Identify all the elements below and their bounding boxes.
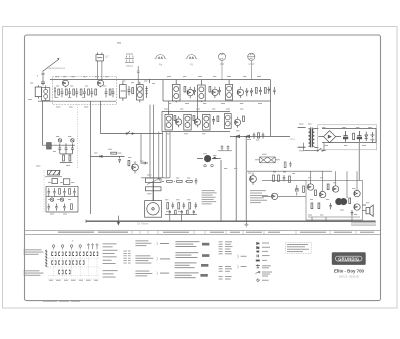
AF small parts row 1 — [162, 178, 197, 184]
socket Bu4 jack — [218, 53, 225, 60]
switch S1 — [127, 131, 135, 134]
bottom bus line — [86, 220, 376, 222]
symbol legend row 2 zener — [257, 246, 270, 248]
ruler boxed cell — [158, 231, 194, 235]
terminal E1 — [204, 164, 206, 166]
resistor R63 — [187, 180, 193, 182]
capacitor C50 — [48, 188, 51, 196]
switch contact row 2 — [51, 260, 84, 264]
resistor R12 — [209, 87, 211, 92]
wire cluster rail — [47, 145, 75, 163]
wire volume feed — [212, 158, 221, 160]
wire AGC drop — [140, 134, 142, 164]
wire speaker feed — [362, 205, 366, 211]
coil L3 box — [120, 85, 127, 98]
svg-text:a: a — [72, 240, 74, 243]
resistor R61 — [167, 180, 173, 182]
value labels IF row A — [122, 76, 262, 104]
switch matrix bottom text row — [49, 279, 98, 282]
transistor Q3 — [187, 89, 193, 95]
wire band drop — [100, 101, 102, 133]
bridge rectifier Gr1 — [318, 131, 341, 143]
resistor R62 — [177, 180, 183, 182]
capacitor C64 — [183, 202, 186, 208]
wire IF rail top — [163, 79, 271, 81]
wire IF2 drop b — [162, 132, 164, 178]
capacitor C5 — [75, 88, 78, 97]
tuner AGC cluster group — [47, 139, 75, 163]
resistor R52 — [71, 204, 73, 210]
capacitor C4 — [68, 88, 71, 97]
wire output verticals — [311, 171, 357, 198]
svg-text:220V~: 220V~ — [290, 139, 297, 141]
output stage group — [307, 184, 360, 217]
resistor R60 — [128, 160, 130, 165]
svg-text:GRUNDIG: GRUNDIG — [338, 257, 359, 262]
symbol legend row 4 cap — [257, 255, 270, 258]
svg-text:Ra: Ra — [159, 62, 163, 66]
crystal filter F1 — [96, 53, 103, 63]
wire output bottom rail — [308, 216, 360, 218]
ruler strip text left — [58, 232, 374, 233]
IF transformer Tr1 — [172, 84, 180, 101]
wire tuner drop A — [149, 105, 151, 178]
resistor R66 — [189, 203, 191, 209]
capacitor C12 — [193, 87, 196, 95]
capacitor C72 — [289, 162, 292, 168]
resistor R73 — [303, 186, 305, 192]
ground symbol G1 — [244, 221, 248, 227]
legend brace 5 label — [241, 265, 247, 268]
resistor R1 — [58, 89, 60, 95]
capacitor C57 — [55, 204, 58, 211]
ruler ticks — [132, 231, 356, 235]
resistor R8 — [109, 89, 111, 95]
capacitor C56 — [48, 204, 51, 211]
trimmer C2 — [54, 88, 56, 98]
switch matrix dashed verticals — [54, 248, 97, 277]
value labels output stage — [308, 177, 369, 215]
wire AF rail y171 — [247, 170, 332, 172]
coil L2 box FM input — [42, 85, 50, 100]
capacitor C18 — [273, 87, 276, 95]
switch wafer bar — [45, 250, 47, 268]
resistor R77 — [349, 198, 351, 204]
schematic border frame — [25, 35, 381, 301]
elko C71 — [295, 185, 299, 195]
IF transformer Tr3 — [226, 84, 233, 100]
wire row — [91, 155, 125, 157]
capacitor C52 — [63, 188, 66, 196]
wire filter drop 2 — [101, 63, 103, 80]
legend col4 text groups — [135, 240, 153, 276]
note text block 2 — [250, 190, 268, 203]
elko C45 — [47, 143, 52, 149]
wire IF link 1 — [168, 101, 170, 114]
transistor Q4 — [212, 89, 218, 95]
resistor R40 — [63, 155, 65, 161]
wire IF input riser — [149, 80, 151, 83]
legend col5 group 3 — [175, 262, 197, 268]
wire AF pins — [170, 215, 182, 222]
tag box 2 — [202, 254, 209, 257]
wire left drop — [43, 101, 56, 145]
transistor Q9 — [132, 164, 139, 171]
wire osc right drop — [77, 186, 79, 212]
transistor Q10 driver — [250, 173, 257, 185]
capacitor C30 elko — [343, 131, 347, 142]
wire osc mid rail — [46, 196, 78, 198]
value labels left section — [36, 136, 121, 214]
capacitor C14 — [218, 87, 221, 95]
wire DIN drop — [137, 66, 140, 85]
diode D4 — [244, 135, 250, 138]
diode D2 — [250, 88, 253, 96]
IF transformer Tr6 — [203, 114, 210, 130]
wire driver bottom rail — [262, 195, 306, 197]
legend col2 text rows — [103, 243, 118, 277]
resistor R10 — [184, 87, 186, 92]
resistor R68 — [187, 210, 189, 214]
resistor R79 — [318, 203, 320, 209]
wire IF left edge — [162, 80, 164, 101]
wire bus down right — [270, 80, 272, 137]
tuning gang link dashed — [77, 105, 79, 168]
wire drop x232 — [235, 136, 237, 221]
legend ruler line bottom — [25, 233, 381, 235]
legend col5 group 1 — [175, 241, 199, 247]
transistor Q7 — [194, 119, 200, 125]
elko C61 leads — [197, 158, 218, 160]
bus arrow marker — [118, 216, 120, 225]
tuning diode row group — [91, 152, 125, 163]
capacitor C1 — [41, 80, 45, 85]
transistor Q12 — [319, 191, 325, 197]
tag box 4 — [200, 274, 207, 277]
resistor R26 — [243, 116, 245, 121]
footer print note — [43, 300, 80, 303]
wire filter drop 1 — [97, 63, 99, 80]
AM mixer stage group — [120, 82, 148, 103]
wire osc top rail — [46, 185, 78, 187]
IF transformer Tr7 — [224, 114, 231, 129]
value labels IF row B — [164, 109, 259, 141]
svg-text:TB/TA: TB/TA — [126, 64, 133, 68]
trimmer C54 — [50, 198, 53, 201]
wire IF link 2 — [196, 101, 198, 119]
wire jack Bu5 drop — [250, 61, 252, 80]
oscillator coil L12 — [63, 179, 69, 185]
capacitor C70 — [283, 175, 286, 181]
capacitor C74 — [351, 210, 354, 216]
junction dot bus — [246, 220, 248, 222]
grid ref mark top — [117, 42, 121, 43]
resistor R3 — [73, 89, 75, 95]
transistor Q1 FM RF — [62, 80, 68, 88]
resistor R2 — [65, 89, 67, 95]
wire drop x242 — [245, 136, 247, 221]
terminal E2 — [211, 164, 213, 166]
wire PS top rail — [322, 127, 376, 129]
legend col5 group 4 — [175, 272, 199, 278]
legend brace 4 — [236, 255, 239, 259]
AM IF stage group — [224, 114, 244, 129]
wire IF2 rail bottom — [162, 131, 230, 133]
value labels tuner band — [28, 76, 108, 107]
IF transformer Tr2 — [198, 85, 206, 101]
FM tuner enclosure dashed — [53, 76, 117, 104]
wire IF2 drop d — [169, 132, 171, 178]
capacitor C31 elko — [357, 131, 361, 142]
capacitor C58 — [63, 204, 66, 211]
filter L1 box — [35, 85, 41, 98]
resistor R51 — [69, 189, 71, 195]
symbol legend row 3 elko — [256, 251, 268, 253]
capacitor C6 — [83, 88, 86, 97]
wire FM rail top — [50, 79, 116, 81]
capacitor C9 — [105, 88, 108, 97]
wire PS bottom rail — [322, 142, 376, 144]
resistor R71 — [278, 175, 280, 181]
power transformer Tr8 — [298, 127, 319, 147]
GRUNDIG logo box — [332, 252, 366, 265]
capacitor C68 — [169, 210, 171, 215]
trimmer C40 — [58, 139, 61, 142]
legend left note text — [24, 249, 44, 275]
svg-text:T: T — [37, 74, 39, 78]
resistor R15 — [255, 88, 257, 94]
capacitor C65 — [195, 202, 198, 208]
resistor R78 — [311, 203, 313, 209]
legend brace 3 label — [160, 273, 169, 274]
wire AF row1 — [162, 180, 186, 182]
tag box 1 — [202, 243, 209, 246]
capacitor C75 — [193, 210, 195, 215]
diode D3 ratio det — [234, 135, 240, 138]
trimmer C55 — [60, 198, 63, 201]
pot body circle — [147, 203, 159, 215]
resistor R6 — [95, 89, 97, 95]
socket Bu2 earphone — [155, 55, 167, 59]
resistor R24 — [217, 116, 219, 121]
transistor Q2 FM osc — [97, 80, 103, 88]
resistor R41 — [69, 155, 71, 161]
capacitor C44 — [71, 143, 74, 154]
legend brace 2 — [156, 257, 159, 260]
wire IF2 drop c — [165, 132, 167, 178]
socket Bu5 jack — [248, 53, 255, 60]
resistor R76 — [327, 184, 329, 190]
resistor R22 — [193, 116, 195, 121]
svg-text:GW 21 - 6100 02: GW 21 - 6100 02 — [339, 274, 359, 278]
resistor R74 — [284, 162, 286, 168]
wire output drops to bus — [312, 217, 352, 221]
driver parts group — [273, 175, 305, 195]
resistor R28 — [258, 133, 260, 138]
output stage box — [306, 180, 362, 220]
AGC line group — [101, 131, 163, 134]
capacitor C8 — [128, 86, 131, 95]
tag box 3 — [201, 264, 208, 267]
coil L4 box — [136, 85, 143, 100]
wire osc bottom rail — [46, 211, 78, 213]
trimmer C41 — [71, 139, 74, 142]
resistor R44 — [111, 152, 117, 154]
resistor R75 — [315, 190, 317, 196]
resistor R64 — [167, 203, 169, 209]
legend brace 5 — [236, 265, 239, 269]
dial lamps box La1 La2 — [255, 157, 280, 163]
capacitor C22 — [212, 116, 215, 125]
transistor Q6 — [176, 119, 182, 125]
diode D5 zener — [365, 132, 368, 141]
svg-text:Elite - Boy 700: Elite - Boy 700 — [334, 268, 365, 273]
socket Bu3 earphone — [186, 55, 198, 59]
resistor R70 — [273, 175, 275, 181]
capacitor C26 — [253, 133, 256, 139]
resistor R7 — [132, 88, 134, 94]
capacitor C3 — [61, 88, 64, 97]
capacitor C42 — [58, 143, 61, 154]
switch contact row 1 — [51, 252, 98, 256]
capacitor C66 — [221, 145, 224, 150]
legend col5 group 2 — [175, 252, 198, 258]
capacitor C27 — [262, 133, 265, 139]
capacitor C53 — [73, 188, 76, 196]
wire cap rail — [218, 150, 232, 152]
capacitor C10 — [112, 88, 115, 97]
capacitor C67 — [227, 145, 230, 150]
bus end tick left — [85, 220, 87, 223]
diode D6 — [100, 155, 102, 157]
wire drop x221 top — [220, 160, 222, 171]
speaker LS1 — [366, 205, 373, 216]
capacitor C51 — [53, 188, 56, 196]
resistor R16 — [264, 88, 266, 94]
resistor R67 — [175, 210, 177, 214]
FM IF stage 1 group — [172, 80, 221, 103]
volume pot P1 — [145, 178, 161, 182]
svg-text:FS: FS — [190, 62, 194, 66]
oscillator coil L11 — [52, 178, 70, 184]
socket Bu1 tape DIN — [125, 54, 134, 63]
FM tuner component row — [54, 88, 114, 98]
wire AM top rail — [116, 79, 163, 81]
resistor R30 — [353, 133, 355, 139]
switch S2 mains — [317, 148, 326, 151]
coupling elko C61 — [204, 155, 211, 162]
resistor R20 — [174, 116, 176, 121]
transistor Q18 — [271, 193, 277, 199]
legend brace 2 label — [160, 258, 170, 259]
wire osc left drop — [45, 186, 47, 212]
wire mid drop — [90, 101, 92, 214]
value labels center — [128, 153, 295, 211]
wire IF2 rail top — [162, 110, 230, 112]
legend brace 4 label — [241, 255, 247, 258]
power transistor Q14 — [336, 198, 342, 204]
tone pot P2 — [145, 187, 161, 191]
transistor Q17 — [354, 204, 360, 210]
switch pin circles row — [52, 243, 98, 249]
IF transformer Tr4 — [165, 114, 172, 130]
wire AGC — [101, 133, 163, 135]
transistor Q11 — [307, 184, 313, 190]
note table dashed box — [285, 242, 311, 253]
resistor R50 — [59, 189, 61, 195]
polarity mark C61 — [214, 157, 216, 159]
capacitor C63 — [172, 202, 175, 208]
AF small parts column group — [165, 202, 197, 221]
transistor Q13 — [332, 186, 338, 192]
note text bottom right — [351, 222, 376, 225]
wire driver rail — [262, 179, 306, 181]
wire drop x221 — [220, 171, 222, 221]
wire tuner drop B — [153, 105, 155, 201]
AF preamp group — [128, 160, 162, 217]
switch contact row 3 — [58, 270, 70, 274]
power transistor Q15 — [340, 198, 346, 204]
wire AF col rail — [165, 213, 197, 215]
wire PS feed down — [358, 143, 360, 181]
resistor R65 — [178, 203, 180, 209]
transistor Q16 — [354, 190, 360, 196]
wire IF2 left edge — [161, 111, 163, 131]
oscillator parts grid group — [46, 186, 78, 212]
capacitor C17 — [259, 87, 262, 95]
note table rows — [287, 244, 309, 252]
IF transformer Tr5 — [184, 114, 191, 130]
note text block 1 — [202, 190, 217, 204]
transistor Q5 — [237, 89, 243, 95]
legend col6 rows a — [219, 241, 233, 279]
symbol legend row 1 diode — [257, 242, 269, 244]
legend ruler line top — [25, 230, 381, 232]
IF stage 2 group — [165, 111, 219, 130]
battery B1 — [370, 132, 374, 143]
wire IF2 drop a — [158, 132, 160, 178]
svg-text:MW: MW — [220, 63, 225, 66]
legend brace 1 label — [160, 243, 169, 244]
svg-text:Ch. Masse: Ch. Masse — [137, 222, 149, 225]
ferrite rod antenna L10 — [45, 170, 62, 176]
capacitor C62 — [195, 178, 198, 184]
resistor R4 — [80, 89, 82, 95]
switch matrix dashed rows — [48, 258, 100, 279]
svg-text:Teleskopantenne: Teleskopantenne — [47, 67, 66, 70]
ruler cell text — [163, 232, 189, 233]
resistor R72 — [289, 176, 291, 182]
power supply enclosure box — [318, 125, 377, 150]
svg-text:10,7: 10,7 — [105, 56, 110, 59]
antenna A1 — [41, 58, 59, 80]
capacitor C60 — [142, 162, 148, 165]
legend col3 tiny rows — [123, 251, 130, 264]
symbol legend row 7 arrow — [255, 271, 272, 276]
symbol legend row 5 resistor — [256, 260, 267, 262]
value labels power supply — [299, 124, 372, 152]
symbol legend row 8 trimmer — [257, 279, 269, 282]
capacitor C47 — [118, 156, 121, 163]
capacitor C69 — [181, 210, 183, 215]
capacitor C73 — [329, 203, 332, 209]
trap L5 — [145, 86, 147, 98]
demodulator group — [234, 133, 264, 139]
capacitor C7 — [90, 88, 93, 97]
FM tuner bottom rail — [38, 100, 116, 102]
dial lamp assembly box — [145, 201, 162, 218]
legend brace 3 — [156, 272, 159, 275]
